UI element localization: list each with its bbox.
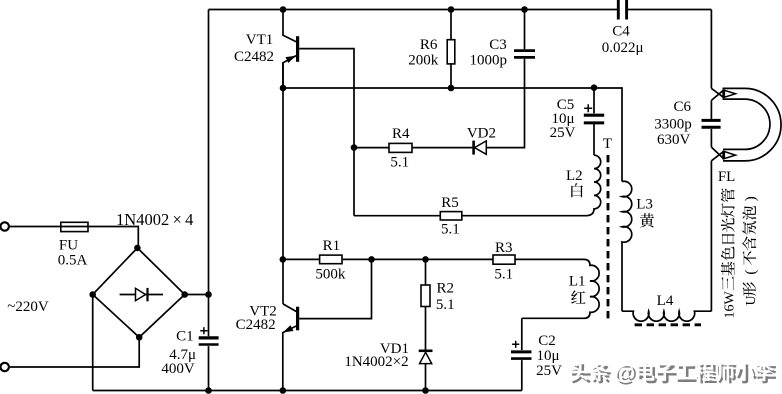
lamp FL filament bottom — [711, 147, 735, 161]
fuse FU — [61, 222, 88, 231]
label C2 10μ 25V — [536, 333, 562, 379]
svg-text:): ) — [743, 196, 759, 201]
node R1 right — [368, 256, 375, 263]
label R5 5.1 — [441, 195, 460, 237]
node R6 bottom — [448, 85, 455, 92]
diode bridge 1N4002x4 — [93, 248, 185, 337]
node C5 top — [591, 84, 598, 91]
inductor L1 — [522, 259, 599, 318]
wire VD1 bottom — [425, 364, 427, 391]
resistor R3 — [493, 255, 515, 264]
transistor VT2 — [283, 304, 298, 391]
svg-text:U: U — [744, 295, 759, 305]
wire C3 branch — [487, 10, 525, 148]
label VD2 — [467, 125, 496, 141]
node bridge left — [89, 291, 96, 298]
label L1 红 — [569, 274, 586, 304]
resistor R4 — [389, 143, 412, 152]
svg-text:C2482: C2482 — [236, 317, 276, 333]
node VT1 base junction — [351, 144, 358, 151]
inductor L4 — [622, 311, 711, 321]
node R2 top — [422, 256, 429, 263]
label VD1 1N4002×2 — [344, 341, 409, 370]
svg-text:VD2: VD2 — [467, 125, 496, 141]
label FU 0.5A — [58, 238, 88, 269]
wire right lamp feed — [710, 10, 712, 89]
capacitor C5 — [584, 88, 604, 123]
label lamp type vertical — [721, 188, 759, 318]
svg-text:R4: R4 — [392, 126, 410, 142]
label C1 4.7μ 400V — [161, 328, 196, 376]
wire top rail — [209, 9, 712, 11]
svg-text:5.1: 5.1 — [494, 267, 513, 283]
svg-text:@: @ — [614, 360, 635, 384]
node VT1 collector junction — [280, 6, 287, 13]
label 1N4002×4 — [116, 210, 193, 229]
svg-text:400V: 400V — [161, 361, 195, 377]
label L3 黄 — [636, 197, 654, 228]
lamp FL tube — [723, 88, 782, 160]
wire bottom rail — [93, 390, 522, 392]
svg-text:C1: C1 — [176, 328, 194, 344]
label VT1 C2482 — [234, 32, 274, 65]
svg-text:L1: L1 — [569, 274, 586, 290]
svg-text:FU: FU — [59, 238, 78, 254]
svg-text:FL: FL — [718, 169, 736, 185]
svg-text:R6: R6 — [420, 37, 438, 53]
svg-text:500k: 500k — [315, 267, 346, 283]
wire R2 branch — [425, 259, 427, 350]
node C1 bottom junction — [205, 387, 212, 394]
svg-text:(: ( — [743, 270, 759, 275]
resistor R6 — [447, 40, 455, 64]
lamp FL filament top — [711, 88, 735, 100]
svg-text:0.022μ: 0.022μ — [602, 40, 644, 56]
svg-text:C3: C3 — [489, 37, 507, 53]
node bridge bottom — [136, 334, 143, 341]
svg-text:3300p: 3300p — [654, 117, 692, 133]
watermark 头条 @电子工程师小李 — [569, 360, 776, 387]
svg-text:10μ: 10μ — [536, 348, 559, 364]
label T — [603, 136, 612, 152]
wire R5 row — [354, 215, 586, 217]
capacitor C2 — [511, 341, 532, 359]
resistor R1 — [320, 255, 342, 264]
svg-text:T: T — [603, 136, 612, 152]
svg-text:R3: R3 — [495, 240, 513, 256]
transistor VT1 — [283, 10, 298, 89]
label R2 5.1 — [436, 281, 455, 313]
svg-text:200k: 200k — [408, 52, 439, 68]
label C4 0.022μ — [602, 23, 644, 56]
label L4 — [657, 293, 674, 309]
svg-text:1000p: 1000p — [469, 52, 507, 68]
wire input top — [10, 227, 138, 248]
diode VD2 — [474, 141, 487, 155]
node bridge output junction — [205, 291, 212, 298]
svg-text:L3: L3 — [636, 197, 653, 213]
capacitor C1 — [199, 327, 219, 344]
wire VT1 base — [299, 49, 354, 216]
svg-text:1N4002×2: 1N4002×2 — [344, 354, 408, 370]
inductor L3 — [622, 181, 632, 311]
node bridge right — [181, 291, 188, 298]
resistor R2 — [421, 285, 430, 307]
svg-text:C2482: C2482 — [234, 49, 274, 65]
inductor L2 — [586, 122, 601, 216]
svg-text:C6: C6 — [674, 99, 692, 115]
svg-text:C2: C2 — [538, 333, 556, 349]
svg-text:630V: 630V — [657, 132, 691, 148]
diode VD1 — [419, 351, 433, 364]
capacitor C3 — [514, 51, 535, 58]
svg-text:5.1: 5.1 — [390, 155, 409, 171]
wire L1 to C2 — [521, 318, 523, 350]
wire bridge left to rail — [92, 295, 94, 391]
svg-text:25V: 25V — [550, 125, 576, 141]
svg-text:5.1: 5.1 — [441, 222, 460, 238]
label C5 10μ 25V — [550, 97, 576, 141]
svg-text:~220V: ~220V — [7, 299, 49, 315]
svg-text:L2: L2 — [566, 168, 583, 184]
transformer core vertical — [607, 155, 610, 321]
svg-text:R2: R2 — [437, 281, 455, 297]
svg-text:16W: 16W — [723, 291, 738, 319]
svg-text:R1: R1 — [323, 238, 341, 254]
label R3 5.1 — [494, 240, 513, 283]
wire R1 R3 row — [283, 258, 584, 260]
label L2 白 — [566, 168, 583, 198]
svg-text:L4: L4 — [657, 293, 674, 309]
wire VT2 base — [299, 259, 371, 318]
wire VT1 emitter bus — [283, 88, 622, 182]
terminal input top — [1, 222, 9, 230]
label C6 3300p 630V — [654, 99, 692, 148]
node R1 left — [280, 256, 287, 263]
label ~220V — [7, 299, 49, 315]
wire left border — [208, 10, 210, 391]
wire C2 to rail — [521, 360, 523, 390]
node R6 top — [448, 6, 455, 13]
svg-text:C4: C4 — [612, 23, 630, 39]
node bridge top — [134, 245, 141, 252]
svg-text:R5: R5 — [441, 195, 459, 211]
node VT2 emitter junction — [280, 387, 287, 394]
wire R6 branch — [450, 10, 452, 89]
transformer core horizontal — [635, 323, 701, 326]
svg-text:5.1: 5.1 — [436, 297, 455, 313]
label R6 200k — [408, 37, 439, 69]
wire bridge right to C1 — [185, 294, 209, 296]
label R4 5.1 — [390, 126, 410, 171]
svg-text:1N4002 × 4: 1N4002 × 4 — [116, 210, 193, 229]
svg-text:VT1: VT1 — [246, 32, 274, 48]
capacitor C6 — [702, 100, 721, 147]
label FL — [718, 169, 736, 185]
node VD1 bottom junction — [422, 387, 429, 394]
node VT1 emitter junction — [280, 85, 287, 92]
wire lamp bottom to L4 — [710, 161, 712, 311]
terminal input bottom — [1, 363, 9, 371]
resistor R5 — [440, 212, 462, 220]
wire R4 row — [354, 147, 474, 149]
label VT2 C2482 — [236, 304, 277, 334]
wire VT1-VT2 vertical — [282, 63, 284, 304]
diode bridge inner symbol — [120, 288, 163, 301]
node C3 top — [521, 6, 528, 13]
svg-text:25V: 25V — [536, 363, 562, 379]
label C3 1000p — [469, 37, 507, 68]
capacitor C4 — [618, 0, 626, 20]
wire input bottom — [10, 337, 139, 367]
label R1 500k — [315, 238, 346, 283]
svg-text:0.5A: 0.5A — [58, 253, 88, 269]
